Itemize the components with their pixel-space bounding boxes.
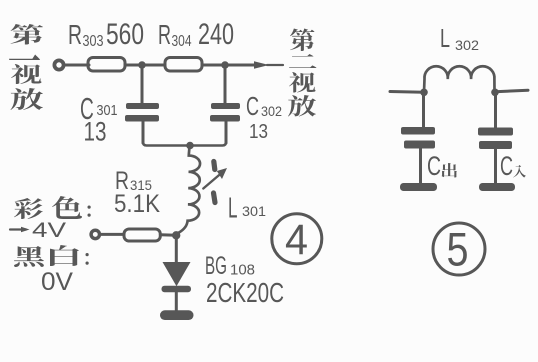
svg-text:C: C (500, 151, 513, 181)
svg-text:560: 560 (106, 18, 144, 51)
wire: circuit-5 right stub (495, 90, 528, 92)
svg-text:2CK20C: 2CK20C (206, 277, 284, 308)
svg-text:302: 302 (261, 104, 282, 119)
label: BG108 designator (205, 252, 255, 280)
figure number 5 (433, 223, 485, 276)
node label: 第二视放 (second video amplifier) (288, 28, 316, 116)
terminal: input from first video amp (54, 60, 63, 69)
wire: R304 to output with arrow (202, 61, 283, 69)
svg-text:240: 240 (198, 18, 234, 51)
wire: input terminal to R303 (65, 64, 89, 67)
svg-text:BG: BG (205, 252, 227, 280)
svg-text:4V: 4V (32, 219, 66, 242)
svg-text:303: 303 (83, 33, 104, 50)
label: →4V (color mode voltage) (10, 219, 66, 242)
label: R304 designator (158, 19, 192, 50)
diode BG108 (162, 262, 192, 292)
junction: node C (cap bottoms to L301) (186, 142, 194, 150)
label: R315 designator (115, 167, 152, 195)
svg-text:13: 13 (84, 117, 107, 147)
wire: node D to diode anode (175, 235, 178, 263)
capacitor C301 (125, 65, 159, 143)
capacitor C302 (210, 65, 240, 143)
svg-text:304: 304 (172, 33, 192, 50)
wire: circuit-5 left stub (390, 90, 424, 94)
capacitor C出 (output capacitor) (401, 92, 435, 184)
label: C302 designator (246, 91, 282, 121)
resistor R304 (165, 58, 202, 72)
ground (160, 310, 194, 320)
label: 黑白 (black and white) (14, 245, 89, 267)
wire: R303 to R304 (125, 64, 165, 67)
svg-text:L: L (440, 23, 450, 53)
svg-text:L: L (228, 193, 238, 225)
svg-text:13: 13 (249, 121, 268, 143)
terminal: control input (+4V/0V) (91, 230, 99, 238)
capacitor C入 (input capacitor) (478, 92, 513, 184)
wire: diode cathode to ground (175, 292, 178, 311)
terminal plate: C出 bottom (400, 183, 437, 191)
label: R303 designator (68, 19, 104, 50)
svg-text:C: C (427, 151, 441, 181)
wire: C301/C302 common bottom rail (143, 122, 226, 146)
label: C301 designator (80, 91, 118, 126)
junction: node A (R303/R304/C301) (138, 61, 146, 69)
wire: control terminal to R315 (100, 233, 124, 236)
node label: 第一视放 (first video amplifier) (9, 24, 43, 110)
resistor R315 (124, 229, 160, 241)
svg-text:5: 5 (447, 223, 469, 276)
terminal plate: C入 bottom (479, 183, 515, 191)
resistor R303 (88, 58, 125, 72)
svg-text:301: 301 (242, 203, 266, 219)
svg-text:302: 302 (455, 37, 479, 53)
label: C出 designator (427, 151, 457, 181)
svg-text:R: R (68, 19, 82, 50)
figure number 4 (272, 214, 322, 264)
svg-text:0V: 0V (41, 268, 73, 296)
svg-text:5.1K: 5.1K (114, 190, 160, 218)
wire: R315 to node D (160, 233, 176, 237)
svg-text:R: R (158, 19, 171, 50)
inductor L301 (adjustable) (176, 146, 200, 236)
junction: node B (R304/C302/output) (221, 61, 229, 69)
junction: node D (R315/L301/diode) (172, 231, 180, 239)
svg-text:4: 4 (285, 216, 308, 264)
label: C入 designator (500, 151, 526, 181)
label: L302 designator (440, 23, 479, 53)
junction: node E (L302 left / C出) (420, 89, 428, 97)
label: L301 designator (228, 193, 266, 225)
inductor L302 (424, 66, 495, 92)
label: 彩色 (color) (14, 196, 91, 219)
junction: node F (L302 right / C入) (491, 89, 499, 97)
adjustable core arrow (L301 slug) (203, 162, 227, 203)
svg-text:C: C (246, 91, 259, 121)
